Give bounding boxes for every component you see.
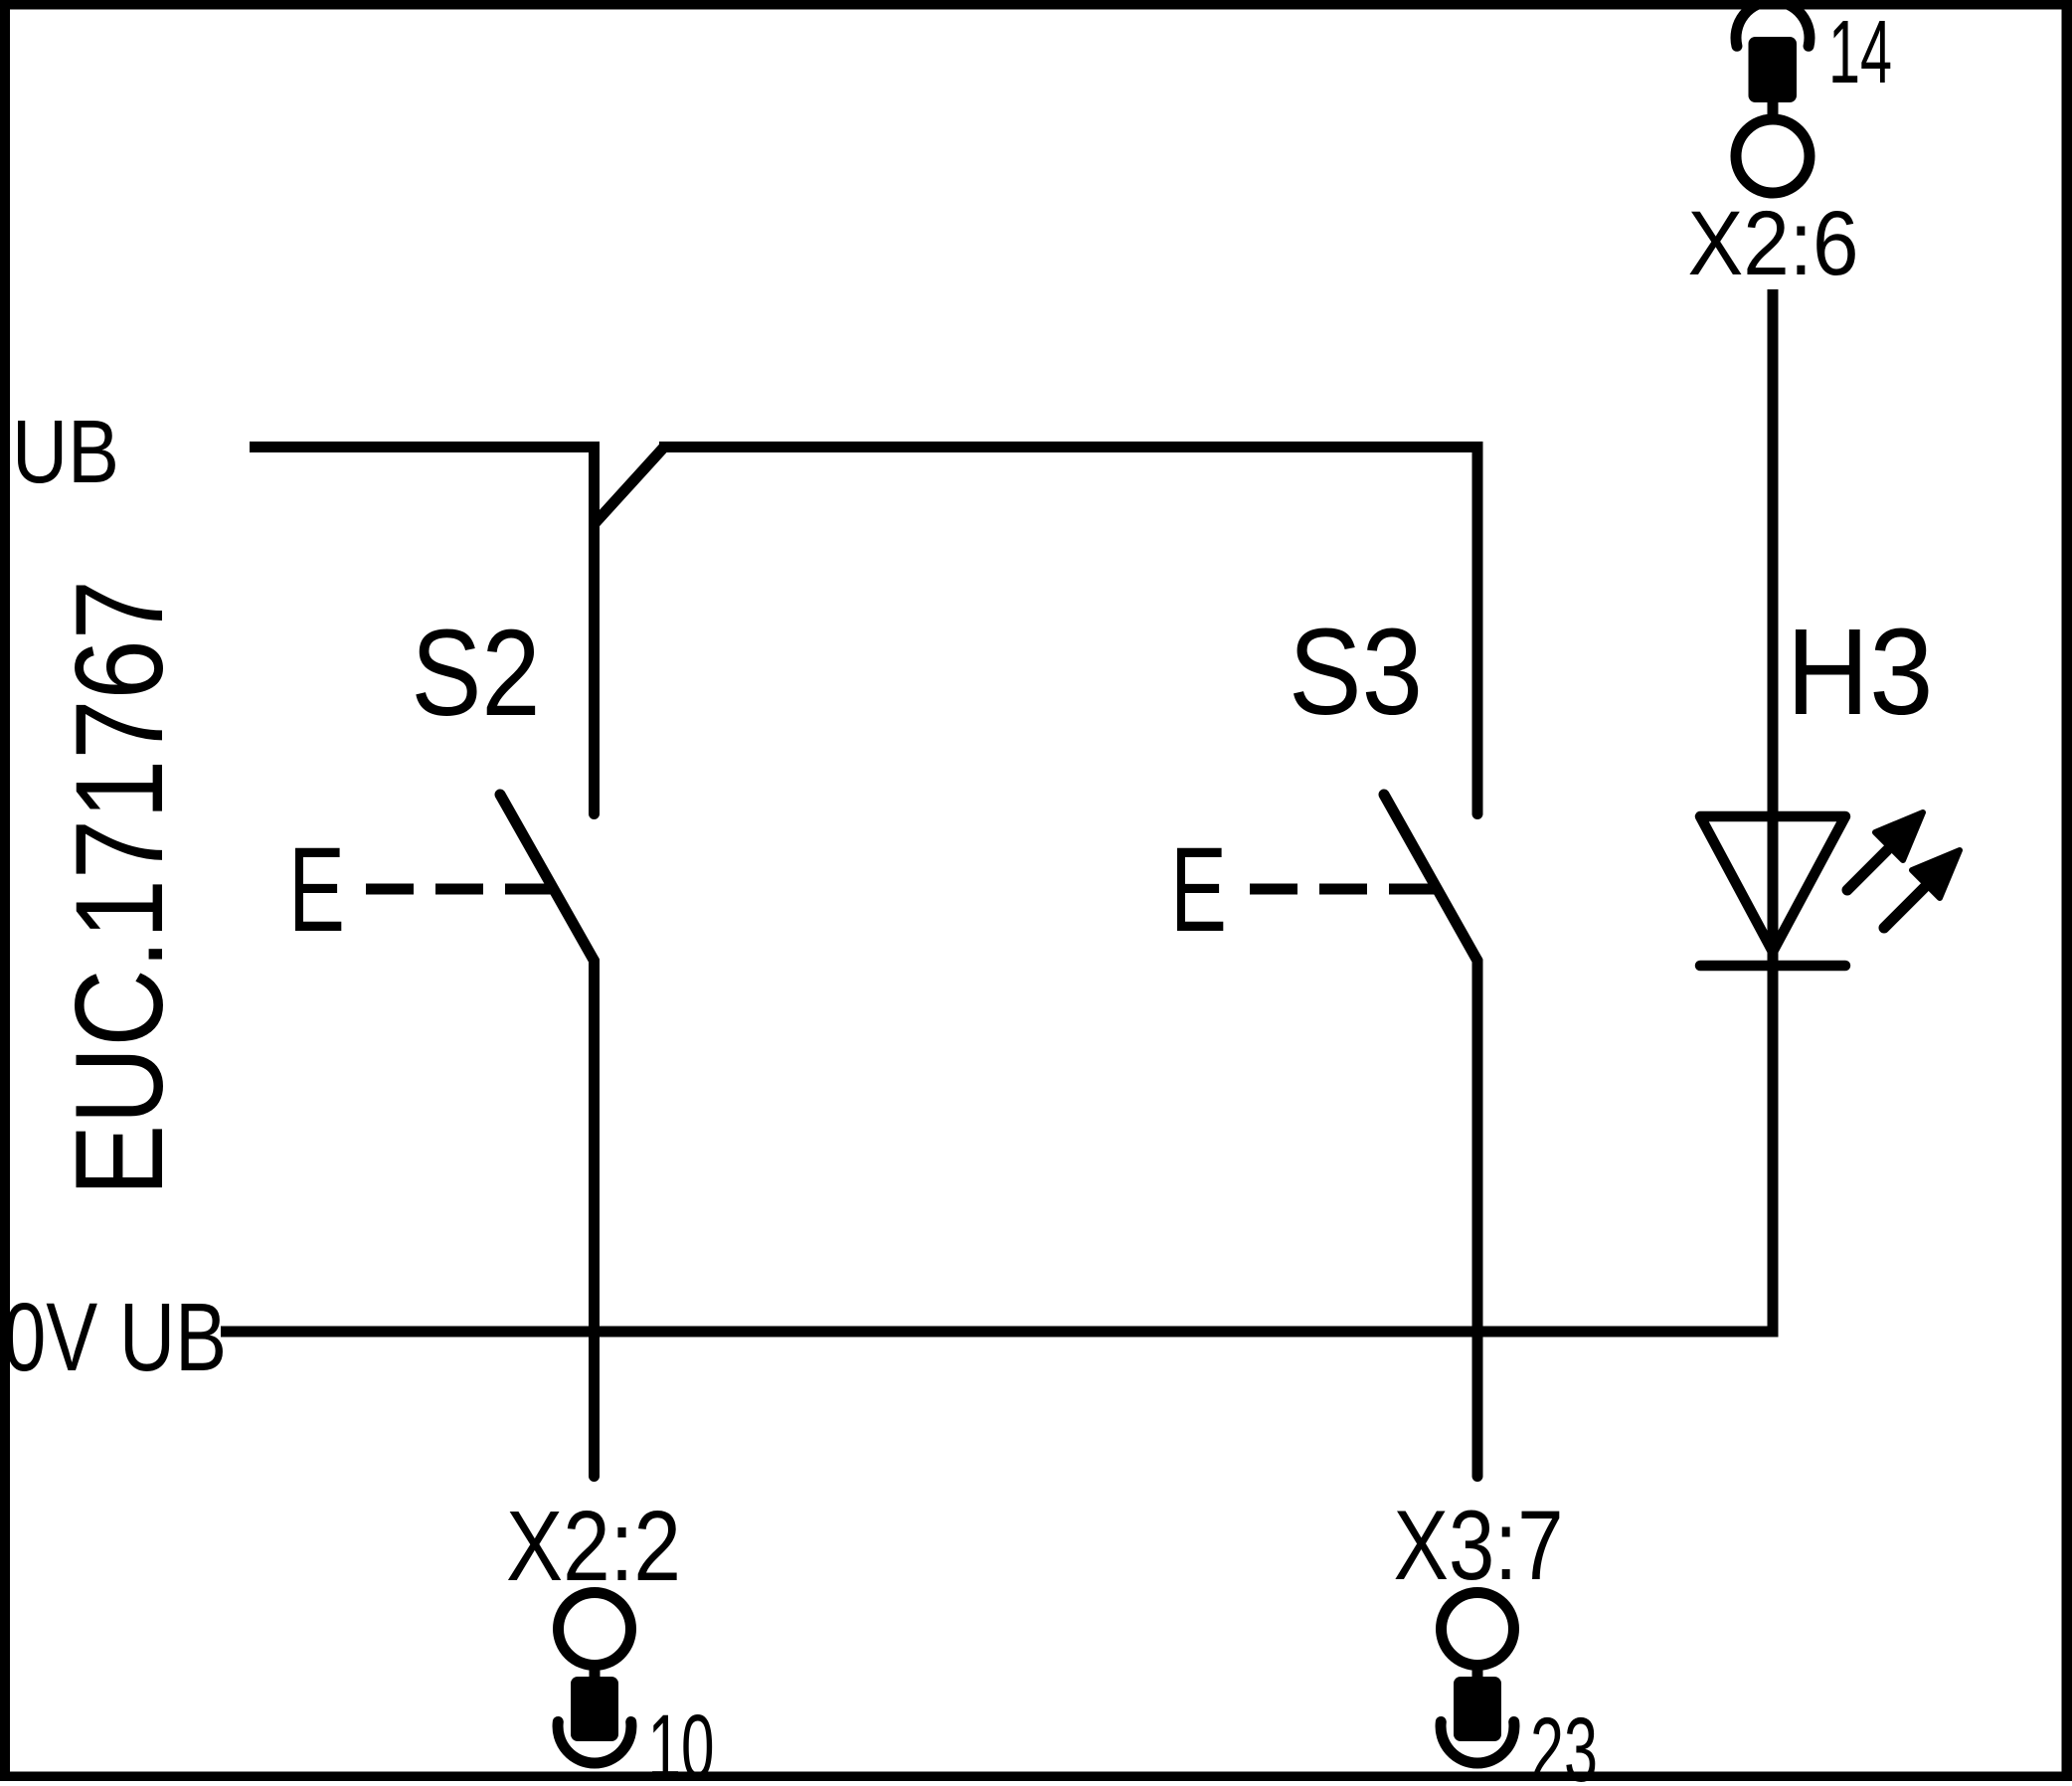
svg-text:X2:2: X2:2 xyxy=(506,1491,681,1602)
switch S3 contact arm xyxy=(1384,795,1477,961)
wire S3 drop xyxy=(1472,451,1483,814)
connector X3:7 socket arc at frame xyxy=(1441,1722,1514,1764)
wire branch diagonal jump xyxy=(595,447,665,525)
connector X2:2 plug xyxy=(571,1677,618,1741)
svg-text:UB: UB xyxy=(12,403,119,502)
svg-text:S2: S2 xyxy=(412,606,541,742)
lamp H3 emission arrow 2 xyxy=(1884,850,1960,928)
connector X3:7 link stub xyxy=(1472,1669,1483,1681)
actuator dashed line S2 xyxy=(366,884,554,895)
lamp H3 cathode bar xyxy=(1700,961,1845,972)
wire UB rail xyxy=(250,442,600,452)
connector X2:6 plug xyxy=(1749,37,1798,102)
terminal X2:6 circle xyxy=(1736,119,1810,193)
svg-text:E: E xyxy=(288,821,345,957)
svg-text:10: 10 xyxy=(648,1697,715,1786)
svg-text:E: E xyxy=(1170,821,1227,957)
wire S2 branch drop xyxy=(589,451,600,814)
terminal X3:7 circle xyxy=(1442,1593,1514,1666)
svg-text:X2:6: X2:6 xyxy=(1688,193,1859,294)
svg-text:S3: S3 xyxy=(1289,605,1423,741)
switch S2 contact arm xyxy=(500,795,595,961)
connector X2:2 link stub xyxy=(590,1669,601,1681)
svg-text:X3:7: X3:7 xyxy=(1394,1490,1564,1600)
svg-text:0V UB: 0V UB xyxy=(3,1283,227,1391)
wire UB rail to S3 xyxy=(659,442,1483,452)
svg-text:H3: H3 xyxy=(1787,605,1934,741)
svg-text:EUC.171767: EUC.171767 xyxy=(51,580,189,1196)
lamp H3 emission arrow 1 xyxy=(1847,812,1923,890)
wire S3 lower drop to X3:7 xyxy=(1472,961,1483,1477)
connector X2:6 link stub xyxy=(1768,99,1779,117)
wire 0V UB rail and H3 riser xyxy=(221,289,1773,1332)
svg-text:14: 14 xyxy=(1828,3,1892,102)
connector X3:7 plug xyxy=(1454,1677,1501,1741)
connector X2:2 socket arc at frame xyxy=(558,1722,631,1764)
svg-text:23: 23 xyxy=(1530,1699,1598,1786)
lamp H3 LED triangle xyxy=(1700,816,1845,952)
terminal X2:2 circle xyxy=(559,1593,631,1666)
wire S2 lower drop to X2:2 xyxy=(589,961,600,1477)
connector X2:6 socket arc at frame xyxy=(1736,1,1810,46)
actuator dashed line S3 xyxy=(1250,884,1438,895)
